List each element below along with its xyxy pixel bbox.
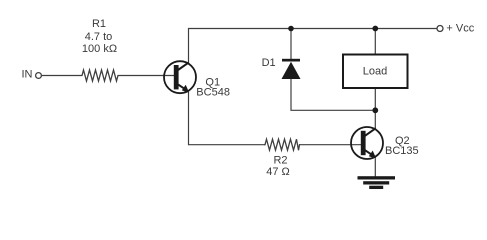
svg-text:BC135: BC135 bbox=[385, 145, 419, 157]
svg-text:R2: R2 bbox=[273, 155, 287, 167]
svg-text:BC548: BC548 bbox=[196, 86, 230, 98]
svg-text:Load: Load bbox=[363, 66, 387, 78]
svg-text:+ Vcc: + Vcc bbox=[446, 22, 474, 34]
svg-text:47 Ω: 47 Ω bbox=[266, 166, 290, 178]
svg-text:100 kΩ: 100 kΩ bbox=[82, 43, 117, 55]
svg-text:D1: D1 bbox=[262, 57, 276, 69]
svg-text:4.7 to: 4.7 to bbox=[85, 31, 113, 43]
svg-text:IN: IN bbox=[22, 68, 33, 80]
svg-text:R1: R1 bbox=[92, 18, 106, 30]
